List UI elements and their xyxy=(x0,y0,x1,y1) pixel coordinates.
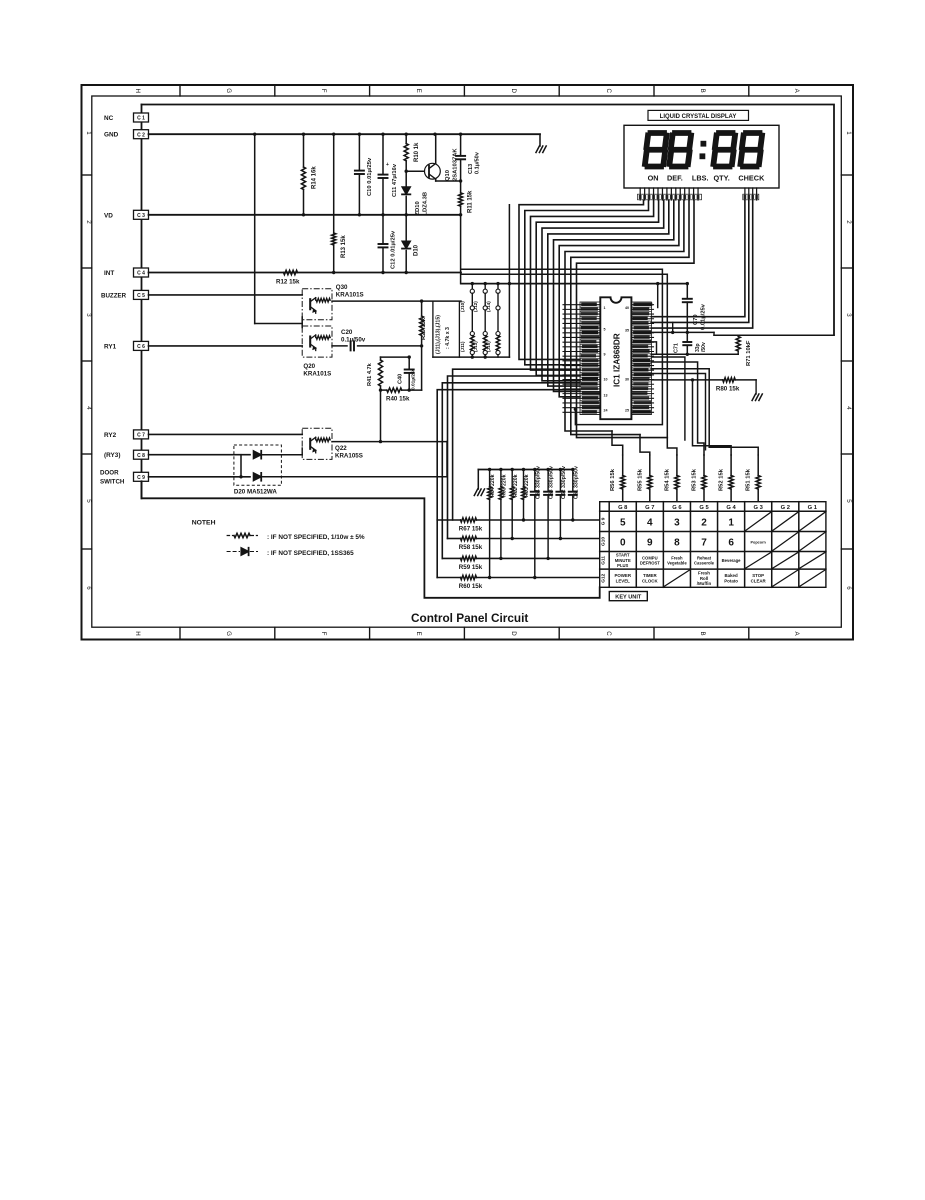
svg-text:LBS.: LBS. xyxy=(692,173,709,182)
wire RC array bus xyxy=(478,469,573,471)
svg-text:ON: ON xyxy=(648,173,659,182)
svg-text:F: F xyxy=(320,632,327,636)
svg-text:QTY.: QTY. xyxy=(714,173,730,182)
connector C5 BUZZER xyxy=(134,290,149,299)
svg-text:G 5: G 5 xyxy=(699,505,709,511)
label box LIQUID CRYSTAL DISPLAY xyxy=(648,110,749,120)
capacitor C11 47u/16v xyxy=(382,134,384,174)
wire IC feed wrap lower xyxy=(461,274,677,455)
svg-text:H: H xyxy=(134,631,141,635)
svg-text:Control Panel Circuit: Control Panel Circuit xyxy=(411,611,528,625)
capacitor C13 0.1u/50v xyxy=(460,134,462,156)
svg-text:Popcorn: Popcorn xyxy=(750,541,766,545)
svg-text:5: 5 xyxy=(620,518,626,529)
svg-text:9: 9 xyxy=(604,353,606,357)
svg-text:Beverage: Beverage xyxy=(722,558,742,563)
svg-text:C: C xyxy=(605,88,612,93)
resistor R14 16k xyxy=(303,134,305,167)
capacitor C20 0.1u/50v xyxy=(332,345,347,347)
svg-text:G 9: G 9 xyxy=(601,517,607,525)
key matrix table xyxy=(600,502,826,588)
svg-text:INT: INT xyxy=(104,270,114,277)
svg-text:VD: VD xyxy=(104,212,113,219)
wire R41 node down xyxy=(380,390,382,442)
ruler ticks left xyxy=(82,174,92,176)
svg-text:DOOR: DOOR xyxy=(100,470,119,477)
svg-text:0: 0 xyxy=(620,538,626,549)
ruler ticks right xyxy=(841,174,853,176)
svg-text:KRA105S: KRA105S xyxy=(335,453,363,460)
svg-text:5: 5 xyxy=(604,328,606,332)
svg-text:: IF NOT SPECIFIED, 1SS365: : IF NOT SPECIFIED, 1SS365 xyxy=(267,550,354,557)
svg-text:GND: GND xyxy=(104,132,119,139)
svg-text:6: 6 xyxy=(85,586,92,590)
ruler ticks top xyxy=(179,85,181,96)
svg-text:R55 15k: R55 15k xyxy=(637,468,643,491)
ground symbol RC bus xyxy=(477,470,479,490)
svg-text:R56 15k: R56 15k xyxy=(610,468,616,491)
svg-text:2: 2 xyxy=(85,220,92,224)
svg-text:/50v: /50v xyxy=(701,342,707,352)
svg-text:R63 220k: R63 220k xyxy=(502,474,508,497)
resistors R64 R63 R62 R61 220k xyxy=(489,470,491,487)
svg-text:35: 35 xyxy=(625,329,629,333)
LCD seven-segment digits 88:88 xyxy=(651,130,665,136)
transistor Q20 KRA101S xyxy=(149,345,303,347)
svg-text:4: 4 xyxy=(647,518,653,529)
svg-text:1: 1 xyxy=(604,306,606,310)
svg-text:C13: C13 xyxy=(468,164,474,174)
capacitor C12 0.01u/25v xyxy=(382,215,384,244)
svg-text:RY2: RY2 xyxy=(104,432,117,439)
svg-text:B: B xyxy=(699,631,706,635)
svg-text:SWITCH: SWITCH xyxy=(100,479,125,486)
svg-text:R58 15k: R58 15k xyxy=(459,544,483,551)
svg-text:(J13): (J13) xyxy=(473,341,478,352)
svg-text:13: 13 xyxy=(604,394,608,398)
jumper resistors J11 J13 J15 xyxy=(470,332,474,336)
svg-text:R52 15k: R52 15k xyxy=(719,468,725,491)
IC1 left pin block xyxy=(580,302,600,415)
capacitors C64 C63 C62 C61 330p/50v xyxy=(534,470,536,492)
svg-text:R80 15k: R80 15k xyxy=(716,386,740,393)
svg-text:C12 0.01µ/25v: C12 0.01µ/25v xyxy=(391,230,397,269)
svg-text:KRA101S: KRA101S xyxy=(336,292,364,299)
svg-text:KEY UNIT: KEY UNIT xyxy=(615,595,642,601)
svg-text:0.01µ/25v: 0.01µ/25v xyxy=(411,368,417,390)
svg-text:C 9: C 9 xyxy=(137,475,145,481)
svg-text:R20 15k: R20 15k xyxy=(421,317,427,340)
svg-text:Vegetable: Vegetable xyxy=(667,561,687,566)
svg-text:(J11): (J11) xyxy=(460,341,465,352)
connector C6 RY1 xyxy=(134,341,149,350)
svg-text:ZD10: ZD10 xyxy=(415,201,421,215)
connector C1 NC xyxy=(134,113,149,122)
svg-text:C 1: C 1 xyxy=(137,116,145,122)
svg-text:/Muffin: /Muffin xyxy=(697,581,712,586)
svg-text:0.1µ/50v: 0.1µ/50v xyxy=(341,337,366,344)
wire jumper bus riser xyxy=(508,205,510,357)
svg-text:10: 10 xyxy=(604,378,608,382)
wire R11 to jumper bus xyxy=(460,215,462,284)
svg-text:R60 15k: R60 15k xyxy=(459,583,483,590)
svg-text:: 4.7k x 3: : 4.7k x 3 xyxy=(445,327,451,349)
svg-text:G 4: G 4 xyxy=(726,505,736,511)
svg-text:2SA1037AK: 2SA1037AK xyxy=(453,148,459,181)
svg-text:0.1µ/50v: 0.1µ/50v xyxy=(475,151,481,174)
svg-text:+: + xyxy=(386,162,389,168)
svg-text:G12: G12 xyxy=(601,573,607,582)
transistor Q10 2SA1037AK xyxy=(406,170,425,172)
svg-text:1: 1 xyxy=(728,518,734,529)
svg-text:G 8: G 8 xyxy=(618,505,628,511)
svg-text:LDZ4.3B: LDZ4.3B xyxy=(423,192,429,216)
svg-text:LEVEL: LEVEL xyxy=(616,578,630,583)
diode D10 xyxy=(405,215,407,241)
svg-text:R51 15k: R51 15k xyxy=(746,468,752,491)
resistor R41 4.7k xyxy=(380,357,382,360)
ruler ticks bottom xyxy=(179,627,181,639)
connector C7 RY2 xyxy=(134,430,149,439)
border inner frame xyxy=(92,96,842,627)
svg-text:G 6: G 6 xyxy=(672,505,682,511)
connector C4 INT xyxy=(134,268,149,277)
svg-text:6: 6 xyxy=(845,586,852,590)
resistor R59 15k row G11 xyxy=(442,557,460,559)
capacitor C70 0.01u/25v xyxy=(686,282,689,285)
diode D20 MA512WA xyxy=(234,445,282,485)
resistor R57 15k row G9 xyxy=(437,519,460,521)
wire VDD riser to IC xyxy=(656,282,659,285)
svg-text:R12 15k: R12 15k xyxy=(276,279,300,286)
wire bus LCD to IC1 left xyxy=(519,200,644,359)
connector C3 VD xyxy=(134,210,149,219)
svg-text:IC1 IZA868DR: IC1 IZA868DR xyxy=(613,333,622,387)
svg-text:E: E xyxy=(415,89,422,93)
svg-text:(J14): (J14) xyxy=(486,301,491,312)
IC1 right pin block xyxy=(631,302,651,415)
svg-text:DEFROST: DEFROST xyxy=(640,561,660,566)
wire IC feed wrap upper xyxy=(461,269,662,424)
svg-text:6: 6 xyxy=(728,538,734,549)
svg-text:9: 9 xyxy=(647,538,653,549)
wire VD bus xyxy=(149,214,461,216)
svg-text:Casserole: Casserole xyxy=(694,561,715,566)
svg-text:C71: C71 xyxy=(674,343,680,353)
zener ZD10 LDZ4.3B xyxy=(405,171,407,186)
svg-text:RY1: RY1 xyxy=(104,343,117,350)
LCD display box xyxy=(624,125,779,188)
wire Q22 collector xyxy=(332,441,447,443)
svg-text:C 6: C 6 xyxy=(137,344,145,350)
svg-text:1: 1 xyxy=(85,131,92,135)
svg-text:R54 15k: R54 15k xyxy=(664,468,670,491)
svg-text:D: D xyxy=(510,88,517,93)
svg-text:G11: G11 xyxy=(601,556,607,565)
connector C2 GND xyxy=(134,130,149,139)
svg-text:R41 4.7k: R41 4.7k xyxy=(367,362,373,386)
wire Q20 Q30 emitters xyxy=(301,317,303,328)
svg-text:BUZZER: BUZZER xyxy=(101,292,127,299)
svg-text:Q10: Q10 xyxy=(445,170,451,181)
svg-text:G 2: G 2 xyxy=(781,505,790,511)
svg-text:(J11),(J13),(J15): (J11),(J13),(J15) xyxy=(436,315,442,354)
resistor R13 15k xyxy=(333,134,335,233)
svg-text:R11 15k: R11 15k xyxy=(468,190,474,213)
LCD pin row right xyxy=(744,188,746,200)
svg-text:R53 15k: R53 15k xyxy=(692,468,698,491)
svg-text:25: 25 xyxy=(625,409,629,413)
svg-text:40: 40 xyxy=(625,306,629,310)
svg-text:CLEAR: CLEAR xyxy=(751,578,767,583)
svg-text:C 8: C 8 xyxy=(137,453,145,459)
note resistor spec xyxy=(227,535,234,537)
label KEY UNIT xyxy=(609,592,647,601)
svg-text:C63 330p/50v: C63 330p/50v xyxy=(549,466,555,499)
wire bus IC1 to key rows xyxy=(453,369,580,520)
svg-text:G 7: G 7 xyxy=(645,505,654,511)
wire connector bus vertical xyxy=(141,105,143,499)
wire C71 bottom xyxy=(651,353,738,355)
svg-text:4: 4 xyxy=(845,406,852,410)
svg-text:C: C xyxy=(605,631,612,636)
svg-text:5: 5 xyxy=(845,499,852,503)
svg-text:R13 15k: R13 15k xyxy=(341,235,347,258)
LCD pin row left xyxy=(639,188,641,200)
svg-text:C 2: C 2 xyxy=(137,132,145,138)
svg-text:R40 15k: R40 15k xyxy=(386,396,410,403)
svg-text:G10: G10 xyxy=(601,537,607,546)
svg-text:H: H xyxy=(134,88,141,92)
wire jumper bottom bus xyxy=(433,356,510,358)
svg-text:G: G xyxy=(225,88,232,93)
svg-text:C20: C20 xyxy=(341,329,353,336)
wire bus IC1 under to key columns xyxy=(574,408,577,411)
svg-text:C70: C70 xyxy=(693,314,699,325)
svg-text:Q22: Q22 xyxy=(335,445,347,452)
svg-text:C 7: C 7 xyxy=(137,433,145,439)
svg-text:C10 0.01µ/25v: C10 0.01µ/25v xyxy=(367,157,373,196)
capacitor C40 0.01u/25v xyxy=(381,356,410,358)
wire emitter bus vertical xyxy=(254,134,256,323)
capacitor C10 0.01u/25v xyxy=(358,134,360,170)
wire INT bus xyxy=(149,272,462,274)
wire C70 node xyxy=(651,331,714,333)
border outer frame xyxy=(82,85,854,640)
svg-text:CLOCK: CLOCK xyxy=(642,578,658,583)
svg-text:(J10): (J10) xyxy=(460,301,465,312)
IC1 IZA868DR body xyxy=(600,297,631,419)
svg-text:D20 MA512WA: D20 MA512WA xyxy=(234,489,278,496)
resistor R80 15k xyxy=(651,379,723,381)
wire Q22 base from D20 xyxy=(301,448,303,455)
svg-text:R14 16k: R14 16k xyxy=(312,166,318,189)
wire C20 node down xyxy=(421,346,423,390)
wire right nest verticals xyxy=(651,357,685,440)
svg-text:G 1: G 1 xyxy=(808,505,818,511)
svg-text:1: 1 xyxy=(845,131,852,135)
wire jumper bus J xyxy=(461,283,687,285)
svg-text:R67 15k: R67 15k xyxy=(459,526,483,533)
svg-text:Potato: Potato xyxy=(724,578,738,583)
svg-text:5: 5 xyxy=(85,499,92,503)
jumper J10 J12 J14 xyxy=(471,284,473,289)
resistor R60 15k row G12 xyxy=(437,577,460,579)
wire bus LCD right pins down xyxy=(651,200,745,317)
svg-text:F: F xyxy=(320,89,327,93)
svg-text:NOTEH: NOTEH xyxy=(192,520,216,527)
ground symbol GND bus xyxy=(539,134,541,146)
transistor Q22 KRA105S xyxy=(149,433,303,435)
label box J11 J13 J15 4.7k x 3 xyxy=(433,301,460,357)
resistor R58 15k row G10 xyxy=(448,538,461,540)
svg-text:C 3: C 3 xyxy=(137,213,145,219)
svg-text:C62 330p/50v: C62 330p/50v xyxy=(561,466,567,499)
svg-text:8: 8 xyxy=(674,538,680,549)
ground symbol R80 xyxy=(755,380,757,394)
svg-text:R62 220k: R62 220k xyxy=(513,474,519,497)
svg-text:NC: NC xyxy=(104,115,114,122)
wire NC top rail xyxy=(142,105,835,336)
svg-text:7: 7 xyxy=(701,538,707,549)
svg-text:C64 330p/50v: C64 330p/50v xyxy=(535,466,541,499)
resistor R12 15k xyxy=(284,270,298,274)
resistor R10 1k xyxy=(405,134,407,143)
svg-text:C 5: C 5 xyxy=(137,293,145,299)
svg-text:(J15): (J15) xyxy=(486,341,491,352)
svg-text:R10 1k: R10 1k xyxy=(414,142,420,162)
wire GND bus xyxy=(149,133,541,135)
connector C8 (RY3) xyxy=(134,450,149,459)
svg-text:LIQUID CRYSTAL DISPLAY: LIQUID CRYSTAL DISPLAY xyxy=(660,114,737,120)
svg-text:B: B xyxy=(699,89,706,93)
svg-text:3: 3 xyxy=(85,313,92,317)
wire Q30 collector to R20 xyxy=(332,300,461,302)
wire door switch down and across xyxy=(142,481,600,598)
capacitor C71 33p/50v xyxy=(686,332,688,341)
svg-text:(RY3): (RY3) xyxy=(104,452,120,459)
note diode spec xyxy=(227,551,240,553)
resistor R71 10kF xyxy=(713,332,715,335)
resistor R40 15k xyxy=(381,389,387,391)
svg-text:PLUS: PLUS xyxy=(617,563,628,568)
svg-text:2: 2 xyxy=(845,220,852,224)
svg-text:R71 10kF: R71 10kF xyxy=(746,340,752,366)
svg-text:DEF.: DEF. xyxy=(667,173,683,182)
svg-text:30: 30 xyxy=(625,378,629,382)
svg-text:(J12): (J12) xyxy=(473,301,478,312)
svg-text:Q20: Q20 xyxy=(303,363,315,370)
svg-text:E: E xyxy=(415,631,422,635)
resistor R20 15k xyxy=(421,301,423,316)
svg-text:Q30: Q30 xyxy=(336,284,348,291)
svg-text:C61 330p/50v: C61 330p/50v xyxy=(573,466,579,499)
svg-text:C40: C40 xyxy=(398,374,404,384)
svg-text:C11 47µ/16v: C11 47µ/16v xyxy=(392,163,398,197)
svg-text:3: 3 xyxy=(845,313,852,317)
svg-text:0.01µ/25v: 0.01µ/25v xyxy=(701,303,707,330)
wire Q10 collector xyxy=(436,180,461,182)
svg-text:24: 24 xyxy=(604,409,608,413)
svg-text:KRA101S: KRA101S xyxy=(303,371,331,378)
svg-text:D: D xyxy=(510,631,517,636)
connector C9 DOOR SWITCH xyxy=(134,472,149,481)
svg-text:R61 220k: R61 220k xyxy=(524,474,530,497)
svg-text:R64 220k: R64 220k xyxy=(490,474,496,497)
transistor Q30 KRA101S xyxy=(149,294,303,296)
svg-text:R59 15k: R59 15k xyxy=(459,564,483,571)
svg-text:: IF NOT SPECIFIED, 1/10w ± 5: : IF NOT SPECIFIED, 1/10w ± 5% xyxy=(267,534,365,541)
svg-text:2: 2 xyxy=(701,518,707,529)
svg-text:4: 4 xyxy=(85,406,92,410)
svg-text:D10: D10 xyxy=(414,244,420,256)
resistor R11 15k xyxy=(459,179,462,182)
svg-text:G 3: G 3 xyxy=(754,505,764,511)
resistors R56-R51 15k key columns xyxy=(622,455,624,475)
svg-text:G: G xyxy=(225,631,232,636)
svg-text:CHECK: CHECK xyxy=(738,173,765,182)
svg-text:C 4: C 4 xyxy=(137,271,145,277)
svg-text:3: 3 xyxy=(674,518,680,529)
